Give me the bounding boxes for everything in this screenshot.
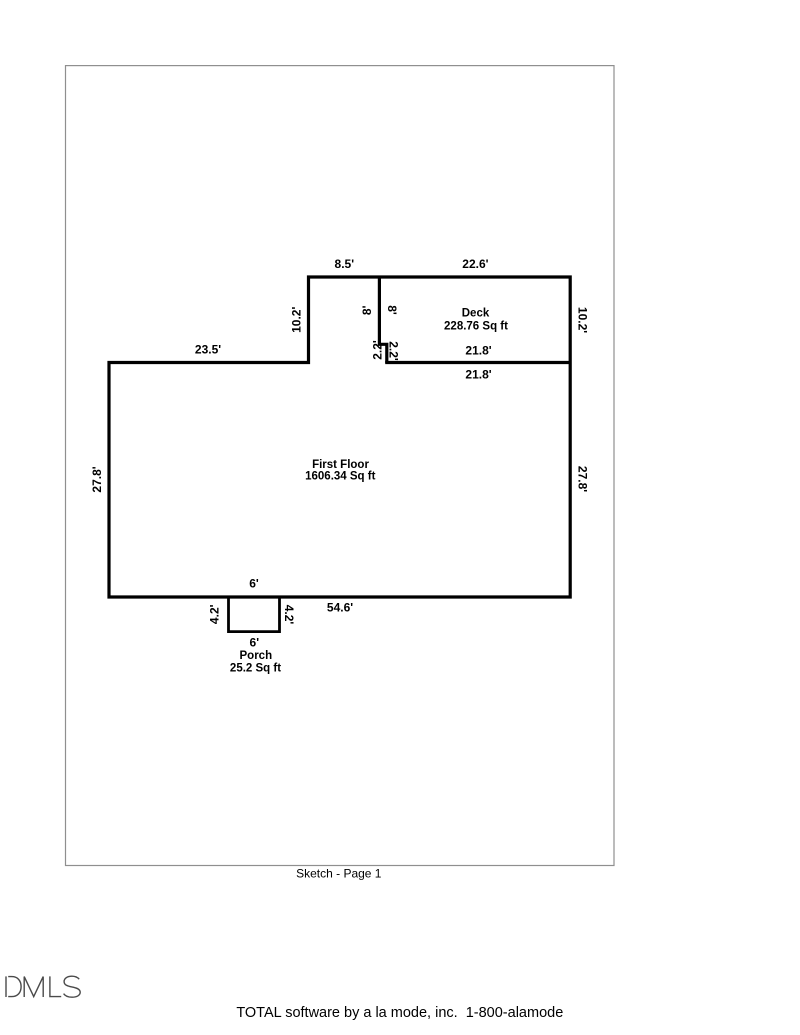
- wall: deck interior wall 8' with 2.2' jog: [379, 277, 386, 363]
- svg-text:6': 6': [250, 635, 260, 649]
- wall: deck bottom 21.8' (shared with first-floor top): [385, 361, 570, 364]
- svg-text:Deck: Deck: [462, 307, 490, 319]
- svg-text:23.5': 23.5': [195, 343, 221, 357]
- svg-text:First Floor: First Floor: [312, 459, 369, 471]
- svg-text:Porch: Porch: [240, 650, 273, 662]
- svg-text:27.8': 27.8': [90, 466, 104, 492]
- svg-text:27.8': 27.8': [575, 466, 589, 492]
- svg-text:10.2': 10.2': [575, 307, 589, 333]
- svg-text:22.6': 22.6': [462, 257, 488, 271]
- logo: DMLS (thin-stroke letters, bottom-left): [6, 976, 80, 997]
- svg-text:10.2': 10.2': [289, 307, 303, 333]
- logo letter M: [24, 977, 43, 997]
- sketch border frame: [66, 66, 615, 866]
- logo letter D: [5, 976, 7, 997]
- wall: first-floor outline (23.5' top-left, 10.2' step up, 8.5'+22.6' top, right side, bottom 54.6', left 27.8'): [109, 277, 570, 597]
- svg-text:6': 6': [249, 577, 259, 591]
- svg-text:4.2': 4.2': [208, 604, 222, 624]
- svg-text:8': 8': [360, 305, 374, 315]
- svg-text:4.2': 4.2': [282, 605, 296, 625]
- svg-text:228.76 Sq ft: 228.76 Sq ft: [444, 320, 508, 332]
- svg-text:Sketch - Page 1: Sketch - Page 1: [296, 867, 382, 881]
- svg-text:54.6': 54.6': [327, 601, 353, 615]
- svg-text:21.8': 21.8': [465, 367, 491, 381]
- svg-text:8.5': 8.5': [335, 257, 355, 271]
- svg-text:TOTAL software by a la mode, i: TOTAL software by a la mode, inc. 1-800-…: [236, 1005, 563, 1021]
- svg-text:2.2': 2.2': [371, 340, 385, 360]
- logo letter S: [64, 976, 81, 997]
- logo letter L: [50, 976, 61, 996]
- svg-text:1606.34 Sq ft: 1606.34 Sq ft: [305, 471, 375, 483]
- wall: porch outline (4.2' + 6' + 4.2'): [229, 598, 280, 632]
- svg-text:8': 8': [385, 305, 399, 315]
- svg-text:2.2': 2.2': [386, 341, 400, 361]
- svg-text:25.2 Sq ft: 25.2 Sq ft: [230, 663, 281, 675]
- svg-text:21.8': 21.8': [465, 344, 491, 358]
